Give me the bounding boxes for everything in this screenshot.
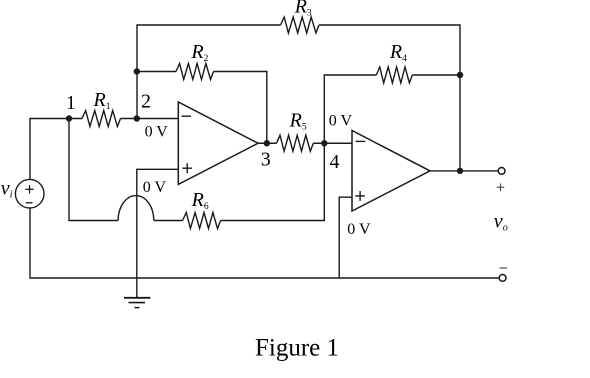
svg-text:R6: R6 — [191, 189, 209, 212]
svg-text:R1: R1 — [93, 89, 111, 112]
svg-text:R4: R4 — [389, 41, 407, 64]
svg-text:0 V: 0 V — [145, 124, 169, 141]
svg-text:R2: R2 — [190, 41, 208, 64]
svg-text:2: 2 — [141, 91, 151, 113]
svg-text:R3: R3 — [294, 0, 312, 18]
svg-text:3: 3 — [261, 149, 271, 171]
svg-text:0 V: 0 V — [143, 179, 167, 196]
svg-text:R5: R5 — [289, 110, 307, 133]
svg-text:0 V: 0 V — [329, 113, 353, 130]
svg-text:vo: vo — [494, 211, 508, 234]
svg-text:vi: vi — [1, 177, 13, 200]
svg-text:1: 1 — [66, 92, 76, 114]
svg-text:Figure 1: Figure 1 — [255, 335, 339, 362]
svg-text:4: 4 — [330, 151, 340, 173]
svg-text:0 V: 0 V — [347, 221, 371, 238]
